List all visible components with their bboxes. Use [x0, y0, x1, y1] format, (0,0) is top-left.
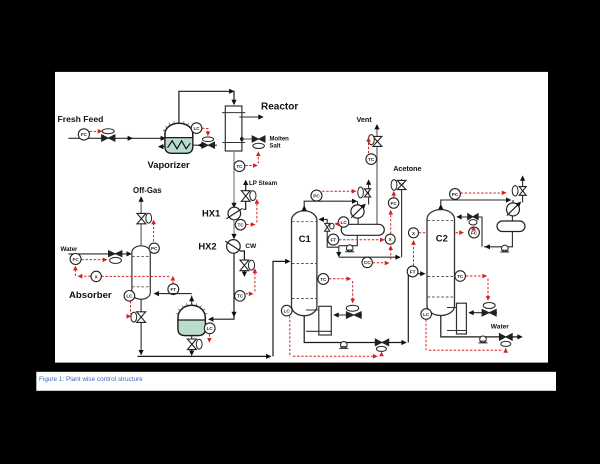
valve LP steam	[241, 191, 250, 202]
svg-text:LC: LC	[207, 326, 214, 331]
controller FT C2 feed	[407, 266, 418, 277]
wire vaporizer overhead to reactor	[179, 91, 234, 123]
wire TC signal to molten salt valve	[245, 154, 258, 166]
wire LP steam line with arrow	[243, 181, 246, 209]
controller X C2	[409, 228, 419, 238]
wire LC signal to separator bottoms valve	[208, 334, 210, 340]
svg-text:Acetone: Acetone	[393, 164, 421, 173]
svg-text:FC: FC	[391, 201, 398, 206]
wire condenser purge line up	[368, 181, 370, 205]
controller LC reflux drum C1	[338, 217, 348, 227]
wire LC signal to absorber bottoms valve	[130, 301, 132, 315]
heat exchanger HX2	[227, 240, 241, 254]
wire arrow into vaporizer	[161, 136, 166, 141]
controller FC fresh feed	[78, 129, 89, 140]
vessel separator	[178, 305, 205, 335]
valve C1 reflux	[325, 223, 330, 231]
valve off-gas	[137, 213, 146, 223]
wire TC signal to C2 steam valve	[466, 276, 488, 299]
svg-text:Water: Water	[61, 246, 79, 253]
controller PC absorber	[149, 243, 159, 253]
wire reflux branch down	[327, 231, 339, 247]
svg-text:C1: C1	[299, 233, 311, 244]
valve C2 reflux	[468, 214, 479, 220]
wire recycle line into vaporizer	[193, 144, 217, 146]
wire fresh feed line	[68, 137, 162, 139]
wire FC signal to reflux valve	[473, 226, 475, 228]
node junction molten salt	[240, 137, 244, 141]
controller TC C1	[318, 274, 329, 285]
wire CW outlet line with arrow	[242, 251, 245, 275]
svg-text:FC: FC	[81, 132, 88, 137]
wire HX1 to HX2	[233, 220, 235, 238]
wire X signal to FC C2	[419, 232, 461, 234]
wire C1 bottoms line	[304, 274, 422, 343]
svg-text:LC: LC	[423, 312, 430, 317]
controller TC after HX1	[235, 219, 246, 230]
wire LC signal to reflux valve	[336, 223, 338, 225]
pump C2 reflux	[500, 245, 509, 252]
wire reflux into C1	[320, 219, 327, 223]
svg-text:TC: TC	[236, 164, 243, 169]
wire TC signal to vent valve	[368, 139, 370, 153]
svg-text:TC: TC	[457, 274, 464, 279]
controller FC acetone	[388, 198, 398, 208]
svg-text:C2: C2	[436, 233, 448, 244]
valve CW	[240, 260, 249, 271]
controller X C1	[385, 234, 395, 244]
svg-text:PC: PC	[452, 192, 459, 197]
wire separator vapor to absorber	[155, 294, 192, 306]
wire vaporizer left outlet arrow	[159, 146, 165, 148]
condenser C2	[507, 203, 520, 216]
wire steam line into reboiler	[335, 314, 362, 316]
svg-text:TC: TC	[237, 223, 244, 228]
svg-text:PC: PC	[151, 246, 158, 251]
wire condenser to drum	[357, 218, 359, 224]
controller LC separator	[204, 323, 215, 334]
svg-text:FT: FT	[410, 269, 416, 274]
valve vaporizer recycle	[202, 137, 213, 142]
controller TC reactor outlet	[234, 161, 245, 172]
svg-text:Fresh Feed: Fresh Feed	[58, 114, 104, 124]
valve C1 bottoms	[375, 339, 389, 346]
svg-text:Figure 1: Plant wise control s: Figure 1: Plant wise control structure	[39, 376, 143, 383]
wire reflux into C2	[456, 214, 461, 219]
svg-text:LC: LC	[341, 220, 348, 225]
wire TC signal to LP steam valve	[246, 201, 257, 225]
wire FT signal to X	[339, 239, 383, 241]
svg-text:CW: CW	[245, 243, 257, 250]
valve fresh feed	[102, 129, 114, 134]
wire LC signal to C2 bottoms valve	[426, 319, 506, 350]
valve separator bottoms	[187, 339, 196, 350]
svg-text:LC: LC	[126, 294, 133, 299]
svg-text:FT: FT	[330, 237, 336, 242]
wire drum outlet to pump	[339, 235, 358, 256]
valve acetone	[397, 180, 406, 189]
wire FT signal to X C2	[413, 242, 415, 266]
wire drum to pump to reflux riser	[462, 217, 512, 247]
wire arrow into HX1	[231, 203, 236, 208]
pump C1 reflux	[345, 245, 354, 252]
reactor R1	[225, 106, 242, 151]
wire water feed line	[68, 253, 128, 255]
vessel vaporizer dome hatching	[163, 121, 195, 131]
wire molten salt line	[242, 138, 252, 140]
wire TC signal to CW valve	[246, 271, 255, 294]
controller FC water	[70, 254, 81, 265]
svg-text:TC: TC	[320, 277, 327, 282]
valve C1 purge	[364, 189, 370, 197]
wire X output to FC acetone	[390, 212, 392, 234]
controller PC C1	[311, 190, 322, 201]
valve C2 reboiler steam	[483, 303, 495, 309]
wire vent line from reflux drum	[376, 125, 378, 224]
svg-text:Reactor: Reactor	[261, 102, 298, 113]
controller TC C2	[455, 271, 466, 282]
wire absorber bottoms down	[140, 300, 142, 355]
controller TC after HX2	[235, 291, 246, 302]
controller LC C1 bottoms	[281, 305, 292, 316]
controller LC absorber	[124, 291, 135, 302]
svg-text:Vent: Vent	[357, 115, 373, 124]
wire acetone riser	[401, 180, 403, 257]
wire off-gas line	[140, 197, 142, 246]
wire CC signal to X	[373, 247, 391, 263]
controller LC C2 bottoms	[421, 309, 432, 320]
wire separator bottoms down	[191, 336, 193, 355]
valve molten salt	[252, 136, 265, 142]
svg-text:FC: FC	[471, 230, 478, 235]
wire C2 bottoms water line	[441, 316, 520, 337]
pump C1 bottoms	[339, 342, 348, 349]
controller LC vaporizer	[191, 123, 202, 134]
wire HX2 down to separator	[210, 253, 234, 319]
svg-text:LC: LC	[284, 308, 291, 313]
wire fresh feed flow arrow	[128, 136, 133, 141]
drum reflux C1	[341, 224, 384, 235]
wire LC signal to recycle valve	[202, 128, 208, 133]
wire C2 purge line up	[522, 177, 524, 203]
wire steam into C2 reboiler	[470, 312, 497, 314]
wire TC signal to reboiler steam valve	[329, 279, 353, 301]
wire bottoms header to C1 feed	[138, 261, 289, 356]
svg-text:FT: FT	[170, 287, 176, 292]
wire condenser to drum C2	[511, 216, 513, 221]
wire distillate line to acetone riser	[339, 256, 399, 258]
wire PC signal to purge valve	[461, 192, 503, 194]
svg-text:FC: FC	[73, 257, 80, 262]
svg-text:Molten: Molten	[270, 137, 290, 143]
controller FT reflux C1	[328, 234, 339, 245]
svg-text:TC: TC	[237, 294, 244, 299]
svg-text:Water: Water	[491, 324, 510, 331]
svg-text:Vaporizer: Vaporizer	[148, 159, 191, 170]
controller PC C2	[450, 189, 461, 200]
wire C1 overhead to condenser	[304, 201, 355, 211]
wire reactor outlet down	[233, 151, 235, 207]
svg-text:HX2: HX2	[198, 241, 216, 252]
controller FC C2 reflux	[469, 227, 480, 238]
valve vent	[373, 136, 382, 146]
controller TC vent	[366, 154, 377, 165]
wire PC signal to off-gas valve	[153, 222, 155, 242]
valve absorber bottoms	[137, 312, 146, 323]
reboiler C2	[457, 303, 467, 334]
heat exchanger HX1	[228, 207, 241, 220]
controller CC composition	[362, 257, 372, 267]
diagram white panel	[55, 72, 548, 363]
valve C1 reboiler steam	[346, 305, 358, 311]
vessel Vaporizer	[165, 123, 193, 153]
wire FC signal to water valve	[81, 259, 104, 261]
wire PC signal to purge valve	[322, 190, 353, 192]
wire reactor side outlet arrow	[239, 116, 259, 118]
column C1	[292, 211, 317, 316]
svg-text:LP Steam: LP Steam	[249, 180, 278, 187]
condenser C1	[351, 205, 364, 218]
svg-text:PC: PC	[313, 193, 320, 198]
controller X ratio absorber	[91, 271, 101, 281]
valve water feed	[108, 251, 122, 257]
wire FC signal to feed valve	[90, 130, 99, 132]
vessel separator dome hatching	[176, 303, 207, 315]
wire ratio X to FC water	[75, 268, 172, 284]
wire FC signal to acetone valve	[393, 193, 395, 198]
drum reflux C2	[497, 221, 525, 232]
svg-text:TC: TC	[368, 157, 375, 162]
column Absorber	[132, 246, 150, 299]
wire LC signal to bottoms valve	[290, 316, 382, 357]
valve C2 bottoms	[499, 333, 512, 340]
svg-text:Off-Gas: Off-Gas	[133, 186, 162, 195]
svg-text:CC: CC	[364, 260, 371, 265]
controller FT absorber gas feed	[168, 284, 179, 295]
reboiler C1	[319, 306, 332, 335]
column C2	[427, 210, 455, 316]
svg-text:LC: LC	[193, 126, 200, 131]
pump C2 bottoms	[479, 336, 488, 343]
wire C2 overhead to condenser	[441, 200, 513, 209]
valve C2 purge	[519, 187, 526, 196]
caption band	[36, 372, 556, 391]
svg-text:Absorber: Absorber	[69, 290, 112, 301]
svg-text:HX1: HX1	[202, 207, 220, 218]
svg-text:Salt: Salt	[270, 143, 281, 149]
